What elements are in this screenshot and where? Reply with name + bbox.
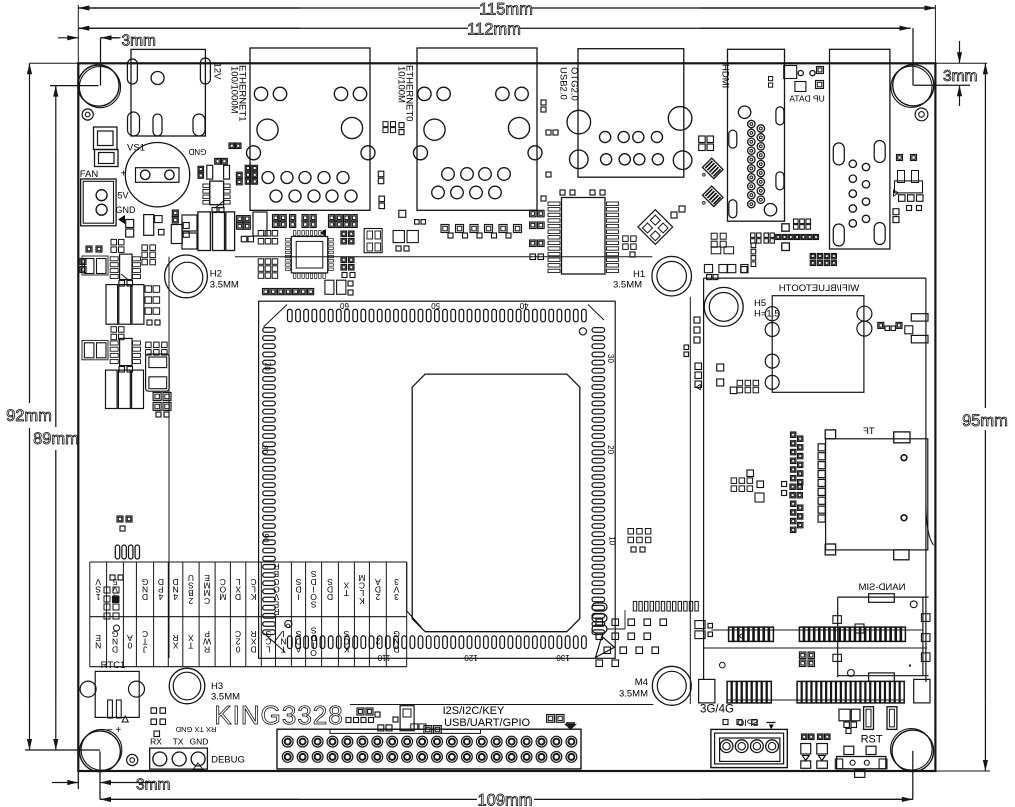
svg-text:60: 60 [340,301,349,310]
pads x731 y478 [731,478,737,484]
svg-text:0: 0 [235,644,240,654]
wire region line bottom [350,704,653,706]
svg-text:3mm: 3mm [122,33,156,50]
svg-text:4: 4 [173,592,178,602]
via column x790 y430 [791,432,796,437]
module edge curve at TF [926,505,934,545]
svg-text:UP DATA: UP DATA [789,94,825,104]
component group above header [400,706,414,731]
capacitor pair top-left [94,127,118,150]
pads below HDMI right [794,219,799,224]
via ring top-left [82,109,93,120]
svg-text:I: I [297,592,299,602]
oval pads row y550 [115,545,119,559]
pads cluster x236 y215 [237,216,243,222]
pads left of SIM [695,621,705,629]
wire region line vertical right from H1 [689,297,691,704]
svg-text:D: D [393,644,399,654]
svg-text:KING3328: KING3328 [214,700,343,730]
pads right of wifi module [878,322,884,328]
svg-text:− +: − + [107,725,122,736]
wire region line horizontal [235,256,652,258]
pads after KING3328 [346,718,351,723]
svg-text:3.5MM: 3.5MM [619,689,648,700]
svg-text:HDMI: HDMI [720,64,731,88]
pads left of QFN [258,231,264,237]
svg-text:D: D [112,644,118,654]
svg-text:H1: H1 [633,269,645,280]
svg-text:USB/UART/GPIO: USB/UART/GPIO [444,717,530,729]
svg-text:3: 3 [394,592,399,602]
dimension 115mm [78,7,300,9]
pads column right x236 [236,172,242,178]
svg-text:OTG2.0: OTG2.0 [569,67,580,101]
pads row below ETHERNET1 [273,215,279,221]
component pair x364 y228 [364,229,382,253]
svg-text:30: 30 [606,354,615,363]
pads cluster x717 y363 [717,364,724,371]
svg-text:VS1: VS1 [127,143,145,154]
svg-text:WIFI/BLUETOOTH: WIFI/BLUETOOTH [779,283,860,294]
pads 2x3 x145 y286 [145,286,152,293]
chip U1 pads left column [263,328,276,333]
svg-text:A: A [295,644,301,654]
inductors below HDMI [699,136,706,143]
svg-text:3mm: 3mm [136,777,170,794]
svg-text:120: 120 [464,653,478,662]
svg-text:K: K [359,596,365,606]
dimension 89mm left [55,86,57,150]
capacitor bank C-left-1 [182,215,197,231]
svg-text:3.5MM: 3.5MM [210,280,239,291]
dimension 3mm top-left [58,37,78,39]
pads x392 y230 [393,231,404,243]
dimension 3mm bottom-left [52,782,78,784]
inductor bank L1 [106,285,118,325]
pads 3x2 x145 y342 [146,342,152,348]
svg-text:95mm: 95mm [962,412,1008,430]
svg-text:O: O [310,648,317,658]
mini-PCIe connector row1 [711,629,923,631]
pads right of QFN [341,231,347,237]
svg-text:T: T [188,640,193,650]
wire region line vertical left [168,257,170,658]
svg-text:20: 20 [606,445,615,454]
inductor bank L2 [106,370,118,408]
via ring top-right [915,108,928,121]
svg-text:I2S/I2C/KEY: I2S/I2C/KEY [443,705,505,717]
pads right of RTC [151,708,157,714]
chip U1 outline [259,301,616,658]
pads row x440 y224 [441,225,449,233]
pads 3x2 x142 y245 [142,245,148,251]
chip U1 pads bottom row [288,636,293,649]
table right edge chamfer [406,562,408,611]
svg-text:10/100M: 10/100M [396,66,407,103]
svg-text:DEBUG: DEBUG [211,755,245,766]
svg-text:R: R [273,607,279,617]
IC U3 SOIC8 [111,327,117,333]
mini-PCIe connector row2 [727,681,731,703]
pads left of module edge [694,317,700,323]
mounting hole H3 3.5MM [169,668,205,704]
svg-text:50: 50 [431,301,440,310]
svg-text:D: D [235,592,241,602]
fan arrow marker [118,215,125,224]
connector right of L2 [146,354,170,391]
chip U5 SOP emmc [562,198,606,275]
svg-text:3mm: 3mm [943,68,977,85]
dimension 92mm left [29,63,31,130]
pads below diamond [623,236,629,242]
chip U1 corner diagonals [264,305,288,328]
svg-text:RST: RST [861,734,883,746]
svg-text:112mm: 112mm [467,21,521,39]
svg-text:RX: RX [150,737,162,747]
svg-text:0: 0 [127,640,132,650]
svg-text:10: 10 [607,536,616,545]
svg-text:115mm: 115mm [479,1,533,19]
small parts below FAN [126,220,134,228]
svg-text:S: S [310,600,316,610]
pads row below QFN [263,289,269,295]
svg-text:N: N [95,640,101,650]
svg-text:M4: M4 [635,677,648,688]
squares row above module [704,265,712,273]
mounting hole top-right [893,65,934,106]
INT marker circle [286,624,290,628]
pads pair y516 [117,516,123,522]
mounting hole H1 3.5MM [652,256,692,296]
svg-text:4: 4 [158,592,163,602]
chip U1 body octagon [412,374,580,632]
svg-text:5V: 5V [117,191,128,201]
svg-text:K: K [343,644,349,654]
svg-text:USB2.0: USB2.0 [558,67,569,100]
svg-text:R: R [204,644,210,654]
pads right of ETH0 [541,100,546,105]
signal table [90,561,407,563]
transistor Q2 SOT23 [210,181,224,205]
pads column x530 y210 [530,210,537,217]
pads above Q2 [215,158,221,164]
svg-text:2: 2 [375,637,380,647]
wire top edge extensions [30,62,79,64]
pads 2x2 below [153,392,161,400]
pads column x695 y363 [695,363,702,370]
svg-text:100/1000M: 100/1000M [229,66,240,114]
svg-text:TF: TF [863,426,875,437]
svg-text:3G/4G: 3G/4G [700,704,734,716]
svg-text:D: D [251,644,257,654]
svg-text:M: M [219,592,226,602]
header J1 40-pin [277,729,581,769]
component x325 y280 [325,280,334,294]
component overlapping table [104,587,110,593]
connector ETHERNET1 RJ45 [250,48,370,210]
diamond chip U6 [638,210,673,245]
svg-text:92mm: 92mm [6,407,52,425]
pads 88 x546 y715 [547,715,555,723]
parts above RST [839,709,850,721]
pcie vias [720,662,726,668]
svg-text:130: 130 [556,653,570,662]
module board outline [703,278,705,680]
mounting hole H2 3.5MM [165,255,208,298]
svg-text:H5: H5 [754,298,766,309]
pads right of DC jack [229,143,235,149]
oval pads right of chip [592,603,607,611]
svg-text:C: C [204,596,210,606]
mounting hole bottom-left [80,731,121,772]
dimension 3mm top-right [913,84,970,86]
pad grid below pin strip [596,619,603,626]
svg-text:110: 110 [377,653,390,662]
svg-text:H3: H3 [211,681,223,692]
pcie row1 center pad [855,624,864,633]
parts above UP DATA label [784,66,797,79]
dimension 109mm bottom [100,798,300,800]
pads 2x2 x799 y652 [799,652,806,659]
mounting hole M4 3.5MM [652,666,691,705]
diode column 1 [802,734,808,740]
resistor row left edge y258 [80,259,86,265]
svg-text:K: K [250,592,256,602]
svg-text:RTC1: RTC1 [101,660,126,671]
IC U2 SOIC8 [111,239,117,245]
mounting hole top-left [78,65,119,106]
svg-text:1: 1 [96,592,101,602]
chip U1 pads top row [288,309,293,322]
arrow marker above header [564,724,577,730]
svg-text:2: 2 [188,596,193,606]
svg-text:90: 90 [261,534,270,543]
svg-text:2: 2 [375,592,380,602]
connector HDMI [728,49,785,221]
svg-text:D: D [327,592,333,602]
svg-text:+: + [121,169,127,180]
board outline [78,63,935,771]
svg-text:H2: H2 [210,269,222,280]
pads right of diamond [711,233,717,239]
svg-text:89mm: 89mm [33,430,79,448]
dimension 112mm [78,27,300,29]
svg-text:T: T [281,644,286,654]
svg-text:T: T [344,588,349,598]
svg-text:D: D [142,592,148,602]
chip U1 pads right column [592,328,605,333]
svg-text:GND: GND [190,737,209,747]
connector DC jack 12V [131,49,205,136]
SIM card slot [838,596,929,598]
svg-text:X: X [172,640,178,650]
mounting hole bottom-right [892,730,934,772]
connector ETHERNET0 RJ45 [417,48,537,210]
pads between ethernets [383,122,388,127]
svg-text:40: 40 [519,301,528,310]
svg-text:L: L [266,644,271,654]
svg-text:J: J [143,644,147,654]
svg-text:GND: GND [188,147,206,156]
cluster x628 y528 [628,529,634,535]
svg-text:NAND-SIM: NAND-SIM [858,582,905,593]
svg-text:GND: GND [116,205,137,215]
via ring bottom-left [127,754,138,765]
connector USB2.0 OTG2.0 [578,49,684,178]
mounting hole H5 [704,287,743,326]
chip U4 QFN [291,237,327,273]
transistor group right of UP DATA [897,155,903,161]
svg-text:3.5MM: 3.5MM [613,280,642,291]
svg-text:TX: TX [173,737,184,747]
svg-text:109mm: 109mm [477,792,532,807]
module WIFI/BLUETOOTH [772,296,864,393]
svg-text:12V: 12V [212,63,223,81]
pin strip x633 y602 [633,601,636,611]
diode column 2 [818,734,824,740]
svg-text:70: 70 [262,362,271,371]
pads 88 x424 y726 [424,726,432,734]
connector USB UP DATA [830,49,890,249]
dimension 95mm right [984,63,986,130]
chip U1 index circles [579,328,586,335]
chip U1 pin1 triangle [596,636,615,657]
svg-text:80: 80 [260,445,269,454]
svg-text:RX TX GND: RX TX GND [175,725,216,734]
